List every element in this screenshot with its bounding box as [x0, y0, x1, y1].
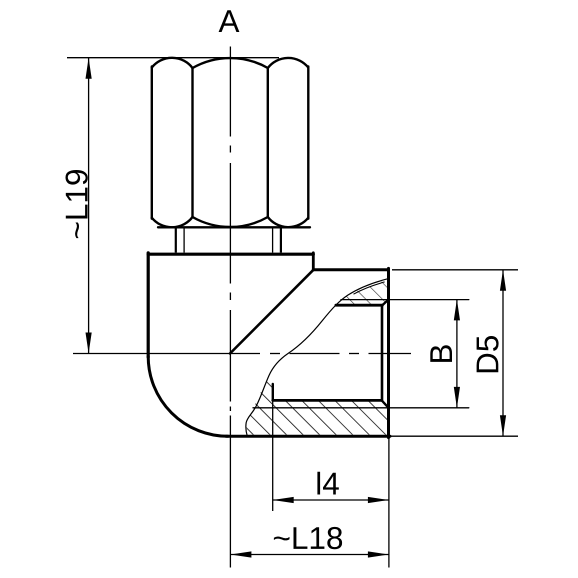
L19 dimension line	[88, 58, 90, 354]
neck thread inner right	[272, 228, 274, 252]
elbow body outline	[148, 253, 390, 438]
L18 dimension line	[230, 554, 389, 556]
hex nut	[152, 58, 310, 227]
body step at outlet	[312, 253, 315, 270]
label A	[219, 10, 240, 32]
nut facet line right	[267, 68, 269, 217]
vertical centerline	[229, 47, 231, 568]
D5 top extension line	[392, 269, 518, 271]
break line inner curve	[354, 282, 385, 294]
label ~L19	[66, 170, 88, 238]
body left edge	[147, 253, 150, 357]
bore end vertical below break	[272, 384, 274, 400]
dimension ~L19	[67, 58, 279, 354]
hatching bottom section	[246, 378, 387, 435]
D5 arrow down	[500, 415, 506, 436]
nut top chamfer arc middle	[193, 58, 268, 68]
L19 arrow up	[86, 58, 92, 79]
outlet right face	[387, 268, 390, 437]
neck thread inner left	[183, 228, 185, 252]
dimension B	[456, 299, 458, 408]
L18 arrow left	[230, 551, 251, 557]
l4 arrow right	[368, 497, 389, 503]
B arrow down	[454, 387, 460, 408]
nut bottom edge	[158, 226, 310, 228]
bore top edge	[336, 304, 382, 307]
l4 left extension line	[272, 401, 274, 512]
B dimension line	[456, 299, 458, 408]
L18 arrow right	[368, 551, 389, 557]
nut facet line left	[191, 68, 193, 217]
internal thread bore (section)	[253, 300, 469, 408]
l4 arrow left	[273, 497, 294, 503]
nut left edge	[151, 67, 153, 219]
bore end / chamfer edge vertical	[381, 305, 384, 400]
dimension ~L18	[230, 554, 389, 556]
L18 left extension line	[229, 436, 231, 567]
bore bottom edge	[273, 399, 382, 402]
label B	[430, 345, 452, 362]
body top edge	[148, 253, 313, 256]
neck outer left	[175, 228, 177, 252]
nut right edge	[307, 67, 309, 219]
D5 dimension line	[502, 270, 504, 436]
l4 / L18 right extension line	[388, 438, 390, 568]
l4 dimension line	[273, 499, 389, 501]
D5 bottom extension line	[390, 435, 518, 437]
B arrow up	[454, 299, 460, 320]
hatching top section	[335, 280, 388, 311]
label D5	[477, 336, 499, 372]
threaded neck below nut	[176, 228, 281, 252]
body bottom-left round corner	[148, 357, 228, 437]
label ~L18	[274, 527, 342, 549]
D5 arrow up	[500, 270, 506, 291]
nut top chamfer arc left	[152, 58, 193, 68]
neck outer right	[280, 228, 282, 252]
body diagonal edge	[230, 270, 313, 354]
nut top chamfer arc right	[268, 58, 309, 68]
horizontal centerline	[73, 353, 411, 355]
body bottom edge	[226, 435, 390, 438]
opening chamfer bottom	[382, 400, 389, 407]
thread major line bottom / B extension	[253, 407, 469, 409]
dimension D5	[390, 270, 518, 436]
nut bottom chamfer arc middle	[193, 217, 268, 227]
label l4	[317, 472, 338, 495]
nut bottom chamfer arc left	[152, 217, 193, 227]
thread major line top	[341, 299, 469, 301]
L19 arrow down	[86, 333, 92, 354]
nut bottom chamfer arc right	[268, 217, 309, 227]
outlet top edge	[313, 268, 388, 271]
wavy break line	[246, 279, 388, 436]
L19 top extension line	[67, 57, 279, 59]
opening chamfer top	[382, 300, 388, 306]
dimension l4	[273, 401, 389, 568]
